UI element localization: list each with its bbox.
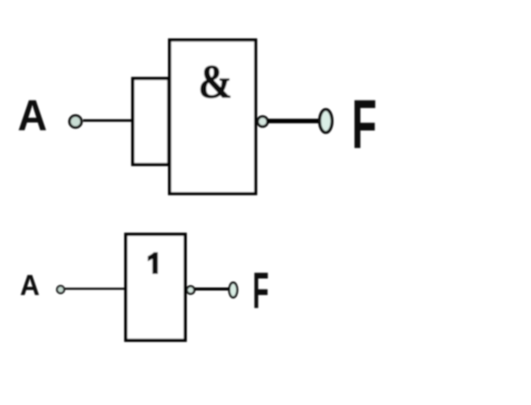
svg-text:A: A: [18, 91, 48, 139]
svg-text:F: F: [352, 86, 377, 164]
svg-text:F: F: [253, 262, 269, 320]
svg-text:A: A: [20, 269, 40, 301]
svg-text:&: &: [198, 54, 232, 108]
